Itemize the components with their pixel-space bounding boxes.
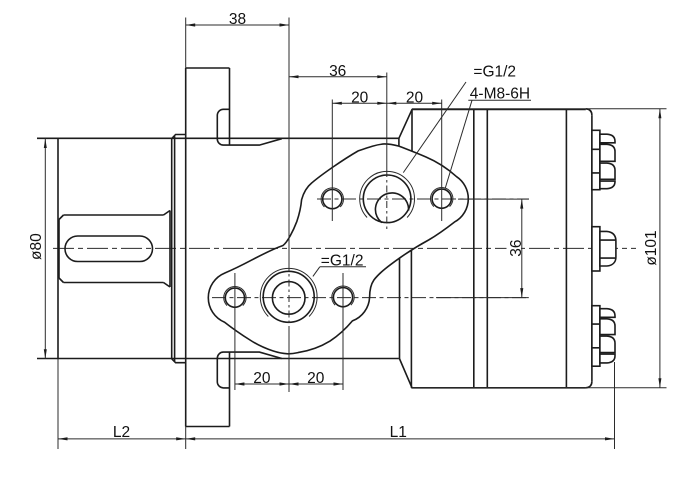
flange top edge <box>186 67 230 69</box>
body top extension to dim <box>412 108 667 110</box>
extension line x289 upper part <box>288 18 290 265</box>
svg-text:20: 20 <box>307 370 325 387</box>
extension line 36 lower <box>436 297 529 299</box>
dimension 36 top line <box>289 76 387 78</box>
flange right face lower <box>229 352 231 427</box>
extension line upper-right hole <box>441 100 443 222</box>
bolt hole M8 upper-right thread <box>430 187 452 206</box>
dimension L1 arrows <box>186 437 196 440</box>
centerline upper port row <box>317 198 529 200</box>
body joint line 2 <box>486 109 488 388</box>
body bottom edge with bevel <box>399 359 585 388</box>
port G1/2 lower outer <box>263 271 314 322</box>
port G1/2 lower thread ring <box>260 268 317 316</box>
body bottom extension to dim <box>412 387 667 389</box>
dimension 20 top-left line <box>332 102 441 104</box>
bolt hole M8 lower-right thread <box>332 286 354 305</box>
body joint line 1 <box>473 109 475 388</box>
bolt hole M8 lower-left thread <box>224 286 246 305</box>
hub chamfer top <box>172 135 186 139</box>
extension line shaft face <box>57 359 59 449</box>
centerline upper port vertical <box>386 170 388 231</box>
bolt middle rear <box>592 227 616 271</box>
dimension 36 vertical line <box>521 199 523 298</box>
bolt hole M8 upper-left <box>323 190 342 209</box>
centerline main axis <box>53 247 636 249</box>
svg-text:36: 36 <box>508 239 525 256</box>
shaft outline <box>59 215 164 283</box>
dimension 36 top arrows <box>289 75 299 78</box>
extension line lower-right hole <box>342 273 344 390</box>
label G1/2 top leader <box>403 82 466 173</box>
shaft keyway slot <box>65 236 153 262</box>
dimension L2 arrows <box>58 437 68 440</box>
extension line x289 lower part <box>288 331 290 392</box>
label G1/2 middle underline <box>320 266 366 268</box>
bolt hole M8 lower-right <box>333 288 352 307</box>
dimension dia80 arrows <box>44 139 47 149</box>
svg-text:20: 20 <box>253 370 271 387</box>
svg-text:L1: L1 <box>390 424 407 441</box>
centerline lower port row <box>212 297 529 299</box>
centerline lower port vertical <box>288 264 290 331</box>
svg-text:20: 20 <box>351 89 369 106</box>
dimension 20 top arrows <box>332 102 342 105</box>
end cap rounded corner bottom <box>586 381 592 388</box>
extension line 36 upper <box>458 198 529 200</box>
dimension 38 arrows <box>186 23 196 26</box>
port G1/2 upper thread ring <box>360 171 415 217</box>
port G1/2 lower inner hole <box>272 282 305 315</box>
bolt hole M8 upper-left thread <box>321 188 343 207</box>
port G1/2 upper inner hole <box>375 193 408 223</box>
label 4-M8-6H underline <box>468 99 531 101</box>
flange bottom edge <box>186 426 230 428</box>
housing front face <box>57 139 59 359</box>
body top edge with bevel <box>399 110 586 139</box>
extension line flange face <box>185 18 187 450</box>
port flange outline <box>208 144 468 354</box>
port G1/2 upper outer <box>363 175 411 223</box>
dimension 20 bottom arrows <box>235 382 245 385</box>
svg-text:ø101: ø101 <box>643 230 660 265</box>
dimension 38 line <box>186 24 289 26</box>
extension line upper-left hole <box>331 100 333 222</box>
flange lower notch <box>217 352 281 388</box>
hub face lines <box>172 136 175 361</box>
bolt pair bottom rear <box>592 306 615 367</box>
svg-text:38: 38 <box>229 11 246 28</box>
dimension 36 vertical text backing <box>507 239 522 258</box>
bolt hole M8 lower-left <box>225 288 244 307</box>
bolt pair top rear <box>592 130 615 189</box>
dimension 36 vertical arrows <box>520 199 523 209</box>
housing bottom silhouette line <box>37 358 399 360</box>
dimension dia101 line <box>659 109 661 388</box>
svg-text:L2: L2 <box>113 424 130 441</box>
svg-text:ø80: ø80 <box>28 233 45 260</box>
svg-text:20: 20 <box>406 89 424 106</box>
end cap right edge <box>591 115 593 381</box>
label 4-M8-6H leader <box>445 100 472 188</box>
extension line upper port centre <box>386 73 388 171</box>
body front face segments <box>399 110 412 388</box>
end cap rounded corner top <box>586 109 592 116</box>
dimension 20 bottom line <box>235 383 343 385</box>
flange front face <box>185 68 187 427</box>
extension line L1 right <box>614 362 616 449</box>
flange upper notch <box>217 109 281 145</box>
dimension L2 L1 line <box>58 438 615 440</box>
svg-text:=G1/2: =G1/2 <box>473 63 516 80</box>
shaft cone transition <box>164 211 171 288</box>
svg-text:36: 36 <box>329 63 346 80</box>
body joint line 3 end cover <box>565 109 567 388</box>
extension line lower-left hole <box>234 273 236 390</box>
housing top silhouette line <box>37 137 399 139</box>
label G1/2 middle leader <box>313 267 320 277</box>
bolt hole M8 upper-right <box>432 189 451 208</box>
dimension dia101 arrows <box>658 109 661 119</box>
flange right face upper <box>229 68 231 145</box>
dimension dia80 line <box>44 139 46 359</box>
hub chamfer bottom <box>172 359 186 363</box>
